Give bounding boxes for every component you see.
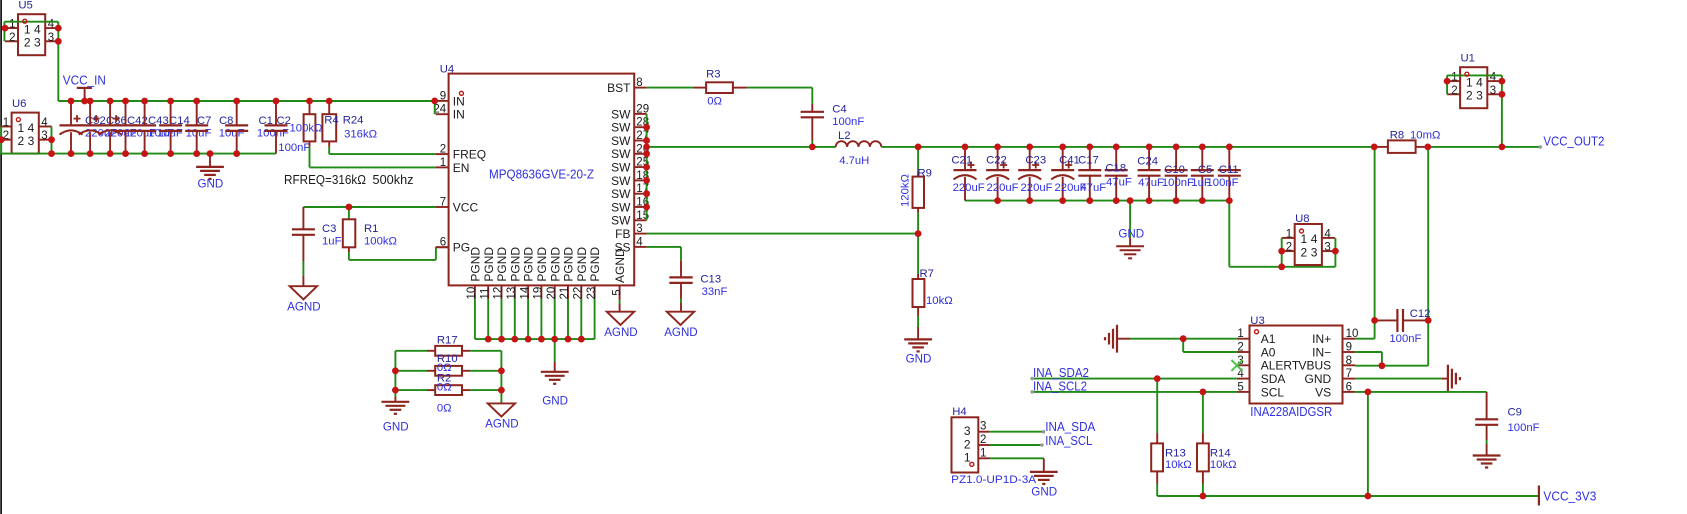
svg-text:L2: L2 [838,130,851,142]
wire U1 net [1447,74,1502,76]
svg-text:100kΩ: 100kΩ [290,122,323,134]
svg-text:SW: SW [611,134,631,148]
wire EN [310,166,436,168]
svg-text:9: 9 [440,90,446,102]
svg-text:4: 4 [41,117,48,129]
ground rotated right [1441,378,1448,380]
junction C42 bottom [107,150,114,157]
capacitor C23 [1029,147,1031,170]
ground GND input rail [209,154,211,167]
junction U8 pin2 [1278,248,1285,255]
resistor R1 100k [346,204,353,211]
svg-text:3: 3 [1476,89,1483,103]
svg-text:8: 8 [1346,355,1352,367]
svg-text:C13: C13 [700,273,721,285]
pin 24 IN [436,113,449,115]
pin 6 VS [1343,391,1356,393]
junction left R10 [392,367,399,374]
capacitor C3 1uF [302,207,304,229]
svg-text:A0: A0 [1261,345,1276,359]
svg-text:3: 3 [41,130,47,142]
wire VCC_OUT2 [1428,146,1541,148]
svg-text:9: 9 [1346,342,1352,354]
wire R17 left rail [394,351,396,397]
junction IN pin9 [431,98,438,105]
junction C22 top [994,144,1001,151]
svg-text:1: 1 [9,19,15,31]
pin 17 SW [634,193,646,195]
junction U6 pin3 [48,136,55,143]
resistor R10 0R [395,370,427,372]
junction C11 bottom [1226,197,1233,204]
inductor L2 4.7uH [836,141,882,147]
svg-text:PGND: PGND [508,247,522,282]
svg-text:INA_SCL2: INA_SCL2 [1033,378,1087,393]
pin 26 SW [634,153,646,155]
svg-text:4.7uH: 4.7uH [839,155,869,167]
junction C5 top [1199,144,1206,151]
svg-text:3: 3 [964,424,971,438]
svg-text:R13: R13 [1165,448,1186,460]
resistor R2 0R [395,389,427,391]
net port INA_SCL [1040,443,1044,447]
junction PGND bus [538,336,545,343]
svg-text:AGND: AGND [604,326,638,339]
junction SW bus [643,190,650,197]
svg-text:INA_SDA: INA_SDA [1045,419,1095,434]
capacitor C42 [109,101,111,125]
junction IN- VBUS [1379,362,1386,369]
ground AGND pin5 [607,312,634,325]
svg-text:7: 7 [1346,368,1352,380]
junction C12 left [1371,317,1378,324]
svg-text:4: 4 [1490,72,1497,84]
wire U6 right to GND rail [51,127,53,154]
svg-text:PGND: PGND [548,247,562,282]
wire FB [647,233,919,235]
connector U8 [1295,224,1322,265]
wire R8 right sense [1427,147,1429,366]
svg-text:12: 12 [493,287,505,300]
junction PGND bus [578,336,585,343]
svg-text:0Ω: 0Ω [707,96,722,108]
junction U1 pin4 [1499,78,1506,85]
junction C41 bottom [1059,197,1066,204]
resistor R8 10mR [1374,146,1388,148]
connector U6 [12,113,39,154]
capacitor C14 [144,101,146,125]
svg-text:RFREQ=316kΩ: RFREQ=316kΩ [284,173,366,187]
svg-text:H4: H4 [952,406,966,418]
wire H4 pin1 to GND [990,457,1044,459]
ground AGND C13 [667,312,694,325]
svg-text:2: 2 [1286,242,1292,254]
svg-text:MPQ8636GVE-20-Z: MPQ8636GVE-20-Z [489,167,594,181]
junction C8 bottom [193,150,200,157]
junction C42 top [107,98,114,105]
net port INA_SDA2 [1030,377,1034,381]
pin 2 FREQ [436,153,449,155]
svg-text:11: 11 [479,288,491,300]
wire pin9 to pin24 [434,101,436,114]
svg-text:19: 19 [533,287,545,300]
svg-text:VS: VS [1315,385,1331,399]
svg-text:100nF: 100nF [1162,177,1194,189]
svg-text:C24: C24 [1137,156,1158,168]
junction C1 top [233,98,240,105]
ground GND output rail [1129,201,1131,238]
junction C23 bottom [1026,197,1033,204]
svg-text:1: 1 [1237,328,1243,340]
junction C17 bottom [1086,197,1093,204]
svg-text:C22: C22 [986,155,1007,167]
svg-text:VBUS: VBUS [1299,359,1332,373]
wire VBUS [1355,365,1428,367]
pin 1 EN [436,166,449,168]
svg-text:10uF: 10uF [219,128,245,140]
svg-text:VCC_OUT2: VCC_OUT2 [1543,133,1604,148]
wire R8 left sense [1374,147,1376,339]
pin 28 SW [634,126,646,128]
pin 19 PGND [540,285,542,299]
svg-text:4: 4 [1476,75,1483,89]
junction VCC_IN [81,98,88,105]
junction U1 pin1 [1444,78,1451,85]
svg-text:GND: GND [1118,228,1144,241]
junction PGND bus [525,336,532,343]
pin 23 PGND [594,285,596,299]
svg-text:U6: U6 [12,98,26,110]
svg-text:3: 3 [34,36,41,50]
svg-text:7: 7 [440,197,446,209]
svg-text:10kΩ: 10kΩ [1165,459,1192,471]
junction left R2 [392,387,399,394]
svg-text:ALERT: ALERT [1261,359,1300,373]
net port INA_SDA [1042,430,1046,434]
net port INA_SCL2 [1030,390,1034,394]
svg-text:SW: SW [611,214,631,228]
ground GND R7 [917,327,919,339]
svg-text:BST: BST [607,81,631,95]
svg-text:10uF: 10uF [186,128,212,140]
resistor R7 10k [917,234,919,274]
capacitor C21 [964,147,966,170]
junction C4 SW [809,144,816,151]
wire U8 left [1281,238,1283,267]
junction C12 right [1425,317,1432,324]
pin 7 GND [1343,378,1356,380]
wire SW bus [646,114,648,220]
wire output GND rail [965,200,1229,202]
capacitor C13 33nF [680,260,682,277]
svg-text:SCL: SCL [1261,385,1285,399]
wire output GND to U8 [1228,201,1230,267]
svg-text:SW: SW [611,200,631,214]
svg-text:100nF: 100nF [1508,422,1540,434]
svg-text:4: 4 [636,236,643,248]
svg-text:10kΩ: 10kΩ [926,295,953,307]
wire INA_SCL2 [1032,391,1237,393]
svg-text:SW: SW [611,107,631,121]
svg-text:2: 2 [964,437,971,451]
wire VCC_IN rail [58,100,436,102]
svg-text:C17: C17 [1078,155,1099,167]
junction SW bus [643,164,650,171]
svg-text:GND: GND [198,178,224,191]
net flag VCC_3V3 [1538,486,1540,506]
ground AGND C3 [290,286,317,299]
svg-text:5: 5 [612,289,624,295]
pin 3 ALERT [1237,364,1250,366]
svg-text:R7: R7 [920,268,934,280]
junction C24 top [1146,144,1153,151]
pin 18 SW [634,179,646,181]
svg-text:SW: SW [611,187,631,201]
resistor R3 0R [693,87,706,89]
svg-text:0Ω: 0Ω [437,403,452,415]
svg-text:20: 20 [546,287,558,300]
svg-text:GND: GND [906,353,932,366]
svg-text:23: 23 [586,287,598,300]
connector U5 [18,14,45,55]
capacitor C2 [275,101,277,125]
left window border [0,0,2,514]
svg-text:47uF: 47uF [1106,177,1132,189]
wire FREQ [329,153,436,155]
wire R17 right rail [500,351,502,404]
svg-text:C5: C5 [1198,164,1212,176]
junction C43 bottom [122,150,129,157]
wire L2 to output [881,146,1374,148]
wire IN+ [1355,338,1374,340]
svg-text:C4: C4 [832,104,846,116]
junction SW bus [643,204,650,211]
junction C14 bottom [141,150,148,157]
junction SW bus [643,137,650,144]
junction SW bus [643,124,650,131]
connector U1 [1460,67,1487,108]
svg-text:R14: R14 [1210,448,1231,460]
ground GND R17 block [382,401,410,403]
junction U8 pin3 [1332,248,1339,255]
junction R4 top [306,98,313,105]
svg-text:GND: GND [542,395,568,408]
wire input GND rail [0,153,276,155]
svg-text:1: 1 [1451,72,1457,84]
svg-text:C18: C18 [1105,163,1126,175]
wire INA_SDA [990,431,1044,433]
pin 3 FB [634,233,646,235]
resistor R13 10k [1156,379,1158,433]
svg-text:1: 1 [24,22,31,36]
wire BST [647,87,694,89]
pin 2 A0 [1237,351,1250,353]
junction A0 branch [1180,335,1187,342]
svg-text:A1: A1 [1261,332,1276,346]
svg-text:2: 2 [17,134,24,148]
pin 16 SW [634,206,646,208]
wire SW to L2 [647,146,836,148]
svg-text:1uF: 1uF [322,236,342,248]
svg-text:1: 1 [1466,75,1473,89]
svg-text:47uF: 47uF [1080,182,1106,194]
pin 5 AGND [619,285,621,300]
svg-text:IN: IN [453,94,465,108]
no-connect X ALERT [1231,360,1242,371]
svg-text:100nF: 100nF [832,116,864,128]
junction C21 top [962,144,969,151]
pin 2 H4 [978,444,990,446]
svg-text:3: 3 [636,223,642,235]
svg-text:3: 3 [980,421,986,433]
junction GND stem [207,150,214,157]
pin 14 PGND [527,285,529,299]
svg-text:1: 1 [964,451,971,465]
resistor R14 10k [1202,392,1204,433]
svg-text:1: 1 [17,121,24,135]
pin 10 PGND [474,285,476,299]
svg-text:13: 13 [506,287,518,300]
junction R9 top [915,144,922,151]
svg-text:C11: C11 [1219,164,1239,176]
junction SW bus [643,144,650,151]
junction right R10 [498,367,505,374]
junction C14 top [141,98,148,105]
pin 3 H4 [978,431,990,433]
junction U8 bottom left [1278,263,1285,270]
capacitor C7 [170,101,172,125]
wire VS [1355,391,1486,393]
ground GND C9 [1473,454,1501,456]
junction U5 pin1 [2,25,9,32]
svg-text:1: 1 [980,447,986,459]
junction output gnd stem [1127,197,1134,204]
wire IN- [1355,351,1382,353]
capacitor C4 100nF [811,104,813,112]
pin 8 BST [634,87,646,89]
junction R8 left [1371,144,1378,151]
pin 27 SW [634,140,646,142]
resistor R4 100k [309,101,311,114]
svg-text:SW: SW [611,161,631,175]
junction C10 top [1173,144,1180,151]
svg-text:C3: C3 [322,223,336,235]
IC U4 MPQ8636 [449,74,635,286]
pin 1 A1 [1237,338,1250,340]
svg-text:6: 6 [1346,381,1352,393]
net port VCC_OUT2 [1539,145,1543,149]
svg-text:R8: R8 [1390,130,1404,142]
svg-text:2: 2 [1451,85,1457,97]
wire GND pin7 [1355,378,1441,380]
junction C52 top [68,98,75,105]
junction VS down [1365,389,1372,396]
svg-text:100nF: 100nF [257,128,289,140]
svg-text:R24: R24 [343,115,364,127]
junction SW bus [643,150,650,157]
junction PGND bus [485,336,492,343]
svg-text:3: 3 [48,32,54,44]
svg-text:220uF: 220uF [987,182,1019,194]
pin 6 PG [436,246,449,248]
svg-text:PZ1.0-UP1D-3A: PZ1.0-UP1D-3A [951,474,1036,486]
wire PG [349,259,436,261]
pin 1 H4 [978,457,990,459]
svg-text:1: 1 [440,157,446,169]
capacitor C8 [196,101,198,125]
resistor R17 0R [395,350,427,352]
svg-text:C21: C21 [951,155,972,167]
svg-text:IN: IN [453,108,465,122]
capacitor C52 [70,101,72,125]
pin 9 IN− [1343,351,1356,353]
svg-text:500khz: 500khz [373,173,414,187]
junction U5 pin4 [55,25,62,32]
svg-text:100nF: 100nF [1207,177,1239,189]
capacitor C12 100nF [1375,319,1398,321]
junction PGND bus [511,336,518,343]
pin 11 PGND [487,285,489,299]
svg-text:316kΩ: 316kΩ [344,129,377,141]
wire SS [647,246,681,248]
svg-text:PGND: PGND [575,247,589,282]
svg-text:C10: C10 [1164,164,1185,176]
wire VCC [303,206,435,208]
svg-text:10: 10 [466,287,478,300]
junction R13 top [1154,375,1161,382]
junction C43 top [122,98,129,105]
svg-text:R1: R1 [364,223,378,235]
svg-text:PGND: PGND [469,247,483,282]
pin 15 SW [634,219,646,221]
junction U1 to VCC_OUT2 [1499,144,1506,151]
svg-text:FB: FB [615,227,630,241]
svg-text:U3: U3 [1250,315,1264,327]
svg-text:3: 3 [28,134,35,148]
svg-text:2: 2 [1237,342,1243,354]
capacitor C43 [125,101,127,125]
svg-text:C9: C9 [1508,407,1522,419]
svg-text:10kΩ: 10kΩ [1210,459,1237,471]
capacitor C36 [89,101,91,125]
svg-text:SW: SW [611,174,631,188]
svg-text:C23: C23 [1025,155,1046,167]
svg-text:6: 6 [440,237,446,249]
junction SW bus [643,177,650,184]
ground AGND R17 block [488,403,515,416]
svg-text:IN+: IN+ [1312,332,1331,346]
junction U5 pin3 [55,38,62,45]
svg-text:33nF: 33nF [702,286,728,298]
svg-text:GND: GND [1031,485,1057,498]
junction C8 top [193,98,200,105]
svg-text:AGND: AGND [664,326,698,339]
svg-text:3: 3 [1490,85,1496,97]
capacitor C18 [1115,147,1117,170]
junction C2 top [273,98,280,105]
pin 25 SW [634,166,646,168]
junction C11 top [1226,144,1233,151]
junction C5 bottom [1199,197,1206,204]
junction C41 top [1059,144,1066,151]
svg-text:2: 2 [440,144,446,156]
wire A0 step [1182,339,1184,352]
resistor R9 120k [917,147,919,172]
wire U6 left pins [0,127,2,154]
junction C17 top [1086,144,1093,151]
svg-text:R3: R3 [706,69,720,81]
junction C1 bottom [233,150,240,157]
